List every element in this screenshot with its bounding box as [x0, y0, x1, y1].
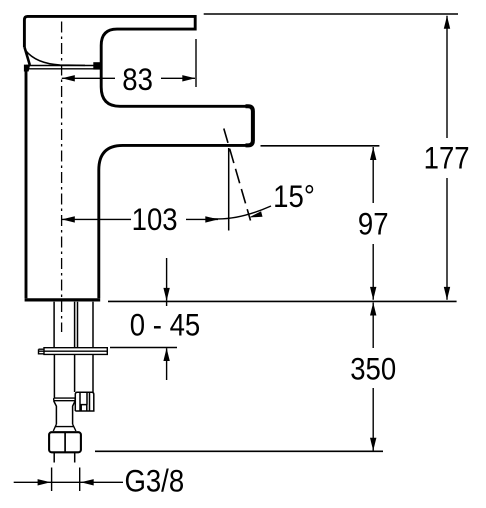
dim 97 line — [372, 147, 374, 300]
joint end blob — [93, 62, 101, 69]
nut G3/8 — [49, 432, 81, 452]
dim 177 down arrow — [444, 287, 450, 300]
svg-text:97: 97 — [358, 207, 389, 242]
handle underside curve — [26, 51, 85, 66]
dim 83 extension line — [195, 39, 197, 87]
dim 0-45 bottom arrow — [163, 348, 169, 361]
hose flare — [53, 424, 76, 431]
connector block — [75, 392, 94, 411]
dim 0-45 top arrow shaft — [166, 258, 168, 306]
centerline — [61, 22, 63, 333]
outlet level reference line — [261, 145, 380, 147]
dim 177 up arrow — [444, 16, 450, 29]
faucet body outline — [24, 16, 246, 298]
dim 97 up arrow — [370, 147, 376, 160]
dim G3/8 right extension line — [79, 468, 81, 492]
angle arc — [210, 206, 271, 219]
dim 0-45 bottom arrow shaft — [166, 348, 168, 380]
dim 103 right arrow — [205, 216, 218, 222]
dim 97 down arrow — [370, 287, 376, 300]
svg-text:0 - 45: 0 - 45 — [130, 308, 200, 343]
svg-text:83: 83 — [122, 62, 153, 97]
svg-text:177: 177 — [424, 141, 470, 176]
hose taper — [54, 401, 75, 424]
outlet vertical ray — [228, 148, 230, 231]
flange top reference line — [110, 347, 177, 349]
svg-text:103: 103 — [132, 202, 178, 237]
hose end reference line — [95, 450, 383, 452]
dim G3/8 right arrow — [81, 479, 94, 485]
body bottom edge — [25, 298, 101, 301]
nut facet line — [64, 433, 66, 453]
svg-text:15°: 15° — [273, 179, 315, 214]
nut stub — [54, 453, 74, 463]
svg-text:350: 350 — [350, 352, 396, 387]
mounting flange — [39, 348, 108, 355]
hose left line — [53, 302, 55, 398]
dim 83 left arrow — [62, 75, 75, 81]
svg-text:G3/8: G3/8 — [124, 464, 184, 499]
dim 350 down arrow — [370, 438, 376, 451]
angle arc arrowhead — [249, 211, 263, 217]
shank stud left line — [77, 302, 79, 348]
handle skirt left nub — [24, 65, 30, 72]
joint line upper — [26, 65, 98, 67]
dim G3/8 left extension line — [51, 468, 53, 492]
dim 83 right arrow — [182, 75, 195, 81]
dim 103 line — [62, 218, 218, 220]
top reference line — [204, 13, 458, 15]
dim 83 line — [62, 77, 195, 79]
hose collar band — [54, 398, 75, 401]
dim G3/8 line — [14, 481, 123, 483]
dim 350 up arrow — [370, 303, 376, 316]
hose right line — [74, 302, 76, 392]
dim 0-45 top arrow — [163, 288, 169, 301]
body left edge — [25, 70, 28, 299]
base plane reference line — [108, 300, 457, 302]
handle chamfer — [25, 48, 30, 66]
dim 350 line — [372, 303, 374, 451]
shank stud right line — [92, 302, 94, 392]
joint line lower — [26, 68, 98, 70]
spout end cap — [246, 106, 253, 145]
dim G3/8 left arrow — [38, 479, 51, 485]
dim 103 left arrow — [62, 216, 75, 222]
outlet 15 deg dashed ray — [224, 129, 251, 221]
dim 177 line — [446, 16, 448, 300]
